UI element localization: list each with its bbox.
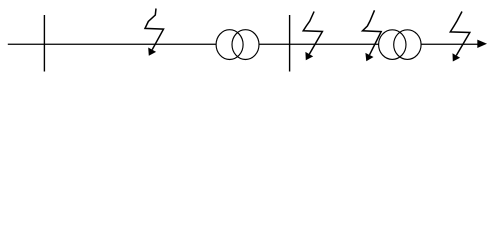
arrow right line end	[477, 40, 487, 48]
fault bolt F4	[450, 12, 470, 62]
fault bolt F1	[145, 9, 164, 56]
fault bolt F2	[303, 12, 322, 61]
wire main line middle segment	[259, 43, 379, 45]
node tick middle busbar	[289, 15, 291, 72]
transformer T1	[216, 30, 259, 60]
node tick left busbar	[43, 15, 45, 72]
transformer T2	[379, 30, 422, 60]
fault bolt F3	[363, 10, 382, 61]
wire main line right segment	[421, 43, 479, 45]
wire main line left segment	[8, 43, 216, 45]
